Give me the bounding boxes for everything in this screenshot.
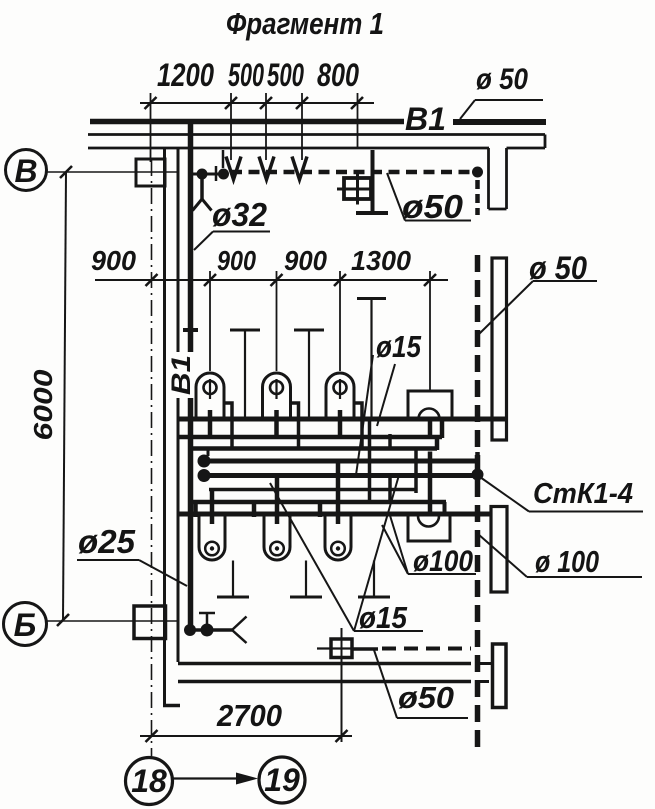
svg-text:ø15: ø15	[376, 329, 422, 364]
arrow 18 to 19	[173, 777, 239, 779]
svg-text:ø50: ø50	[402, 188, 464, 225]
bottom sewer dashed line	[317, 647, 352, 649]
tick row2 axis	[146, 274, 158, 286]
extension lines top	[151, 93, 358, 162]
tick marks top dimension	[145, 97, 364, 109]
svg-text:ø 100: ø 100	[535, 544, 599, 579]
svg-text:ø 50: ø 50	[476, 63, 528, 96]
dimension 2700	[140, 735, 352, 737]
svg-text:Фрагмент 1: Фрагмент 1	[226, 6, 384, 41]
wall top horizontal	[88, 133, 545, 136]
lower urinal fixture 1	[199, 514, 225, 560]
jog row A to B	[440, 419, 445, 438]
jog row B to B2	[435, 437, 440, 450]
grid bubble 18	[126, 758, 173, 805]
tap assembly at Б	[184, 624, 196, 636]
flush pipe T 3 bar	[357, 297, 386, 300]
drop washbasin	[428, 419, 433, 438]
manifold pipe row G	[177, 512, 491, 517]
drop urinal 3	[338, 410, 343, 439]
svg-text:1200: 1200	[157, 57, 214, 93]
extension line axis	[150, 93, 152, 162]
svg-text:900: 900	[284, 245, 327, 276]
node СтК1-4 dot	[472, 469, 484, 481]
svg-text:6000: 6000	[28, 369, 58, 441]
svg-text:900: 900	[91, 245, 136, 276]
stub to node dot	[207, 449, 210, 457]
dashed sewer line top	[231, 170, 471, 175]
right wall middle piece	[491, 507, 507, 593]
svg-text:900: 900	[217, 245, 256, 276]
lower washbasin	[408, 515, 450, 542]
svg-text:ø25: ø25	[78, 523, 136, 560]
urinal flush V marks	[226, 157, 241, 180]
dimension row 2	[95, 279, 448, 281]
svg-text:В: В	[14, 153, 37, 189]
drop lower urinal 3	[336, 459, 341, 524]
manifold pipe row A	[178, 417, 507, 422]
upper urinal fixture 1	[196, 373, 232, 448]
cleanout square 2	[331, 639, 352, 658]
svg-text:ø15: ø15	[359, 600, 408, 635]
sewer drop with crossbar	[371, 150, 375, 212]
svg-text:СтК1-4: СтК1-4	[533, 478, 633, 510]
manifold pipe row F	[193, 500, 446, 505]
flush pipe T 1 stem	[244, 330, 246, 418]
extension line	[265, 93, 267, 160]
right vertical dashed riser СтК1-4	[475, 255, 481, 750]
leg lower urinal 1	[193, 503, 198, 518]
flush pipe T 2 bar	[294, 329, 324, 332]
right wall upper piece	[492, 258, 507, 440]
flush pipe T 2 stem	[308, 330, 310, 418]
tick row2 end	[424, 274, 436, 286]
dimension 6000 vertical	[63, 172, 66, 620]
vertical drop stubs in manifold	[196, 410, 443, 524]
axis circle Б	[4, 603, 47, 646]
axis line Б	[47, 620, 178, 622]
upper urinal fixture 3	[326, 373, 362, 448]
manifold pipe row D with end dots	[198, 469, 211, 482]
wall pier square at В	[136, 159, 165, 186]
right wall lower piece	[493, 644, 507, 708]
drop urinal 2	[274, 410, 279, 439]
label В1 vertical	[168, 352, 194, 398]
extension line	[357, 93, 359, 148]
pipe B1 horizontal top	[90, 119, 404, 125]
tick 500/500	[260, 97, 272, 109]
wall pier square at Б	[134, 606, 166, 639]
drop urinal 1	[208, 410, 213, 439]
upper shower T symbols	[230, 299, 386, 331]
centerline washbasin	[429, 271, 431, 391]
centerline urinal 3	[339, 271, 341, 371]
svg-text:В1: В1	[405, 101, 446, 137]
tick 1200/500	[225, 97, 237, 109]
svg-text:Б: Б	[14, 607, 37, 643]
vertical axis dash-dot line	[151, 160, 153, 756]
tick 500/800	[296, 97, 308, 109]
svg-text:ø50: ø50	[398, 680, 454, 715]
drop to lower washbasin	[428, 452, 433, 517]
svg-text:19: 19	[264, 762, 300, 798]
manifold pipe row B2	[190, 446, 437, 451]
svg-text:800: 800	[317, 57, 359, 93]
lower T 1 stem	[232, 561, 234, 598]
dimension row top: line	[140, 102, 374, 104]
tick row2	[334, 274, 346, 286]
stub D to F	[388, 473, 392, 501]
extension line	[301, 93, 303, 160]
grid bubble 19	[259, 757, 305, 803]
union crossbar on riser	[183, 328, 198, 332]
svg-text:ø32: ø32	[212, 196, 268, 233]
manifold pipe row C with end dot	[198, 455, 211, 468]
manifold pipe row B	[179, 435, 442, 440]
flush pipe T 1 bar	[230, 329, 260, 332]
svg-text:18: 18	[131, 763, 167, 799]
stub B to B2	[388, 434, 392, 448]
svg-text:500: 500	[228, 57, 264, 93]
centerline urinal 2	[276, 271, 278, 371]
flush pipe T 3 stem	[370, 299, 372, 419]
lower T 3 stem	[373, 561, 375, 598]
lower urinal fixture 2	[264, 514, 290, 560]
extension line	[230, 93, 232, 160]
svg-text:500: 500	[267, 57, 304, 93]
left wall vertical	[163, 148, 166, 705]
svg-text:В1: В1	[166, 355, 196, 395]
svg-text:2700: 2700	[216, 698, 282, 733]
riser pipe В1 vertical	[188, 119, 194, 630]
lower T 2 stem	[305, 561, 307, 598]
tick row2	[271, 274, 283, 286]
leg lower urinal 3	[318, 503, 323, 518]
lower T 2 bar	[290, 596, 322, 599]
drop lower urinal 1	[210, 489, 215, 524]
lower urinal fixture 3	[325, 514, 351, 560]
axis line В	[46, 171, 177, 173]
wall stub below top wall right	[487, 148, 490, 209]
lower T 3 bar	[358, 596, 390, 599]
cleanout square on sewer	[344, 178, 371, 199]
bottom wall horizontal	[178, 662, 471, 666]
leg lower urinal 2	[252, 503, 257, 518]
tick row2	[204, 274, 216, 286]
tick at axis line	[145, 97, 157, 109]
centerline urinal 1	[209, 271, 211, 371]
manifold pipe row E	[209, 488, 416, 492]
drop at T3	[368, 419, 372, 502]
svg-text:1300: 1300	[351, 245, 411, 276]
tick end 800	[351, 97, 363, 109]
tap assembly at В	[193, 173, 228, 176]
axis circle В	[6, 150, 47, 191]
upper urinal fixture 2	[263, 373, 299, 448]
riser row E end	[414, 450, 418, 493]
lower T 1 bar	[217, 596, 249, 599]
drop lower urinal 2	[275, 474, 280, 524]
upper washbasin	[408, 391, 452, 419]
lower shower T symbols	[217, 596, 390, 599]
